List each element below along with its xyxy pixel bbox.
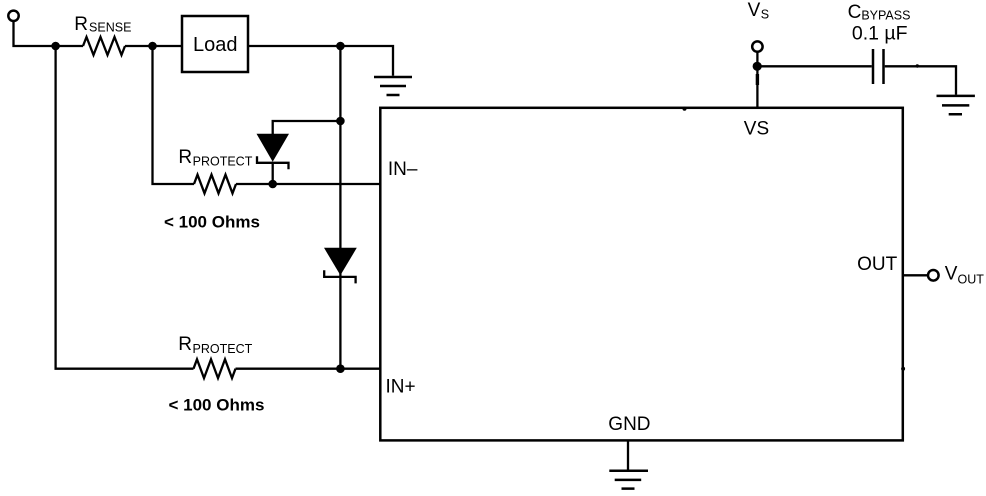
node marker top edge	[683, 107, 687, 111]
resistor RPROTECT2	[194, 359, 236, 378]
diode D2	[324, 248, 357, 275]
node C junction	[336, 42, 345, 51]
wire A down to IN+ line	[56, 46, 194, 369]
VOUT terminal	[928, 270, 939, 281]
ground (bypass)	[937, 96, 975, 114]
wire main vertical	[339, 46, 341, 369]
Load box	[182, 16, 248, 72]
capacitor CBYPASS	[873, 49, 884, 84]
resistor RSENSE	[83, 37, 125, 55]
wire B down to IN- line	[153, 46, 195, 184]
wire RPROTECT2 to IN+ pin	[236, 368, 381, 370]
node VS junction	[753, 62, 762, 71]
wire Load to ground	[248, 46, 393, 76]
svg-text:0.1 µF: 0.1 µF	[852, 22, 908, 44]
svg-text:VS: VS	[744, 119, 769, 140]
svg-text:OUT: OUT	[857, 254, 898, 275]
svg-text:IN–: IN–	[388, 159, 418, 180]
node E junction	[336, 117, 345, 126]
ground (load)	[374, 77, 412, 95]
wire D1 to IN- wire	[272, 162, 274, 184]
wire VS terminal to pin	[756, 52, 758, 108]
resistor RPROTECT1	[194, 175, 236, 194]
op-amp U1 box	[380, 108, 903, 441]
diode D1	[257, 134, 290, 162]
diode D1 zener bar	[257, 156, 289, 169]
wire input to RSENSE	[14, 22, 84, 47]
svg-text:RPROTECT: RPROTECT	[178, 334, 252, 356]
wire RPROTECT1 to IN- pin	[236, 183, 380, 185]
svg-text:RPROTECT: RPROTECT	[178, 147, 252, 169]
wire E to diode D1	[273, 121, 341, 135]
wire VS to CBYPASS	[757, 65, 871, 67]
svg-text:GND: GND	[608, 414, 650, 435]
input terminal	[8, 11, 18, 21]
node B junction	[148, 42, 157, 51]
svg-text:VOUT: VOUT	[945, 263, 984, 286]
node marker right edge	[901, 367, 905, 371]
svg-text:IN+: IN+	[386, 377, 416, 398]
wire GND pin	[627, 440, 629, 469]
svg-text:Load: Load	[193, 34, 238, 56]
wire RSENSE to Load	[125, 45, 182, 47]
svg-text:RSENSE: RSENSE	[74, 14, 131, 35]
node A junction	[51, 42, 60, 51]
svg-text:< 100 Ohms: < 100 Ohms	[164, 212, 260, 231]
wire CBYPASS to ground	[885, 66, 956, 94]
node marker on bypass wire	[916, 64, 919, 67]
wire OUT pin	[903, 274, 927, 276]
svg-text:VS: VS	[748, 0, 770, 22]
svg-text:CBYPASS: CBYPASS	[848, 2, 911, 23]
VS terminal	[752, 41, 762, 51]
ground (IC)	[609, 471, 648, 489]
node F junction	[336, 364, 345, 373]
diode D2 zener bar	[324, 270, 355, 283]
svg-text:< 100 Ohms: < 100 Ohms	[169, 396, 265, 415]
node D junction	[268, 180, 277, 189]
pin VS stub	[756, 74, 759, 85]
